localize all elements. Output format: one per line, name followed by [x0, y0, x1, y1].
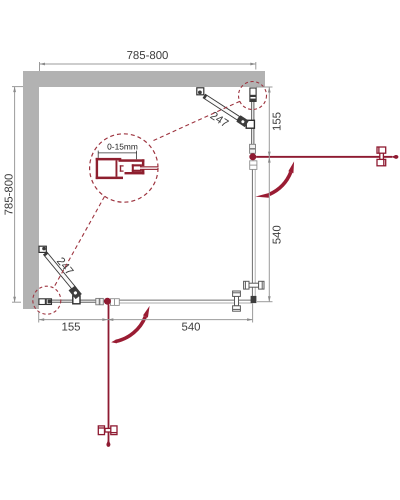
dim top 785-800 extension right	[255, 62, 257, 70]
pivot dot bottom	[104, 298, 111, 305]
dim right arrows middle	[268, 152, 271, 158]
dim top arrow right	[250, 63, 256, 66]
handle bottom door open (red)	[98, 426, 117, 435]
wall left	[23, 87, 39, 309]
door right open arrowhead (teardrop)	[391, 155, 396, 159]
handle right door (gray, closed position)	[244, 281, 264, 289]
pivot bracket bottom (right of dot)	[111, 299, 120, 306]
door right open position (red line)	[256, 156, 392, 158]
hinge-knuckle bottom (on glass)	[73, 296, 80, 304]
fixed glass segment bottom (wall to pivot, dark)	[49, 300, 96, 302]
fixed glass segment right (wall to pivot, dark)	[252, 98, 254, 157]
swing arc bottom	[116, 317, 145, 342]
dim right extension top	[256, 86, 273, 88]
detail marker circle right	[239, 82, 267, 110]
door glass right closed (pivot to corner)	[253, 168, 255, 299]
dim top 785-800 extension left	[39, 62, 41, 71]
dim bottom arrows middle	[102, 318, 108, 321]
detail circle (big)	[90, 134, 158, 202]
hinge-knuckle right (on glass)	[246, 120, 254, 128]
dim right line	[268, 87, 270, 302]
door panel bottom half-open hinge block	[69, 285, 82, 299]
door bottom open arrowhead (teardrop)	[107, 439, 111, 445]
swing arc right arrowhead	[288, 161, 294, 173]
svg-text:785-800: 785-800	[127, 50, 169, 62]
dim left arrow top	[13, 87, 16, 93]
dim left 785-800 extension top	[12, 86, 23, 88]
corner bracket bottom-right	[251, 296, 257, 303]
door panel right half-open (diagonal)	[203, 94, 241, 121]
clamp bottom left of pivot	[96, 298, 99, 304]
swing arc bottom tapered tail	[111, 340, 117, 344]
dim top 785-800 line	[40, 63, 256, 65]
svg-text:0-15mm: 0-15mm	[107, 142, 138, 152]
wall bracket of diagonal panel right	[197, 88, 204, 95]
svg-text:785-800: 785-800	[4, 174, 16, 216]
swing arc right tapered tail	[255, 193, 270, 198]
svg-text:155: 155	[271, 112, 283, 131]
svg-text:540: 540	[181, 322, 200, 334]
pivot dot right	[249, 153, 256, 160]
door bottom open position (red line)	[108, 304, 110, 441]
dim top arrow left	[40, 63, 46, 66]
dim right arrow bottom	[268, 296, 271, 302]
clamp right above pivot	[250, 144, 256, 148]
swing arc right	[270, 172, 291, 194]
door panel bottom half-open (diagonal)	[44, 252, 76, 290]
dim right extension bottom	[257, 301, 273, 303]
handle bottom door (gray, closed position)	[233, 291, 241, 311]
handle right door open (red)	[377, 147, 386, 166]
detail marker circle bottom	[33, 286, 61, 314]
detail: wall U-profile	[96, 158, 123, 179]
dim bottom extension right	[252, 304, 254, 323]
dim left 785-800 line	[14, 87, 16, 303]
dim bottom arrow left	[39, 318, 45, 321]
wall top	[23, 71, 265, 87]
dim bottom extension left	[38, 312, 40, 323]
svg-text:155: 155	[61, 321, 80, 333]
detail: glass edge lines	[140, 166, 158, 167]
door glass bottom closed (pivot to corner)	[111, 301, 252, 303]
detail: gasket clip	[120, 165, 124, 171]
wall profile bracket right (top)	[250, 88, 256, 101]
leader dashed to right marker	[154, 101, 242, 141]
pivot bracket right (below dot)	[250, 161, 257, 170]
svg-text:540: 540	[271, 225, 283, 244]
door panel right half-open hinge block	[236, 115, 249, 127]
detail: glass holder C-profile	[119, 159, 145, 174]
wall bracket of diagonal panel bottom	[39, 246, 46, 252]
dim left 785-800 extension bottom	[12, 301, 21, 303]
swing arc bottom arrowhead	[143, 306, 150, 318]
dim bottom arrow right	[247, 318, 253, 321]
dim bottom line	[39, 319, 253, 321]
dim left arrow bottom	[13, 297, 16, 303]
wall profile bracket bottom (left)	[39, 299, 52, 305]
dim right arrow top	[268, 87, 271, 93]
leader dashed to bottom marker	[54, 197, 105, 289]
detail: dim line 0-15	[98, 151, 136, 160]
